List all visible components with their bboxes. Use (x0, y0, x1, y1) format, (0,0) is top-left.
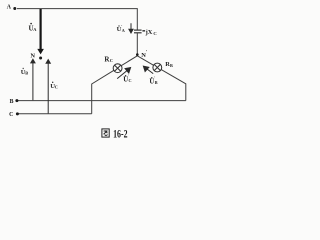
svg-text:C: C (55, 85, 58, 90)
svg-text:jX: jX (145, 29, 153, 36)
svg-text:C: C (110, 58, 113, 63)
svg-text:A: A (122, 28, 125, 33)
svg-text:B: B (25, 71, 28, 76)
svg-text:′: ′ (146, 51, 148, 56)
svg-text:A: A (7, 5, 12, 11)
svg-text:16-2: 16-2 (113, 127, 127, 141)
svg-text:C: C (129, 78, 132, 83)
svg-text:C: C (9, 112, 13, 118)
svg-text:C: C (153, 31, 156, 36)
svg-text:A: A (33, 27, 37, 32)
svg-text:B: B (170, 63, 173, 68)
svg-text:B: B (155, 80, 158, 85)
svg-text:B: B (10, 99, 14, 105)
svg-text:N: N (30, 52, 35, 59)
